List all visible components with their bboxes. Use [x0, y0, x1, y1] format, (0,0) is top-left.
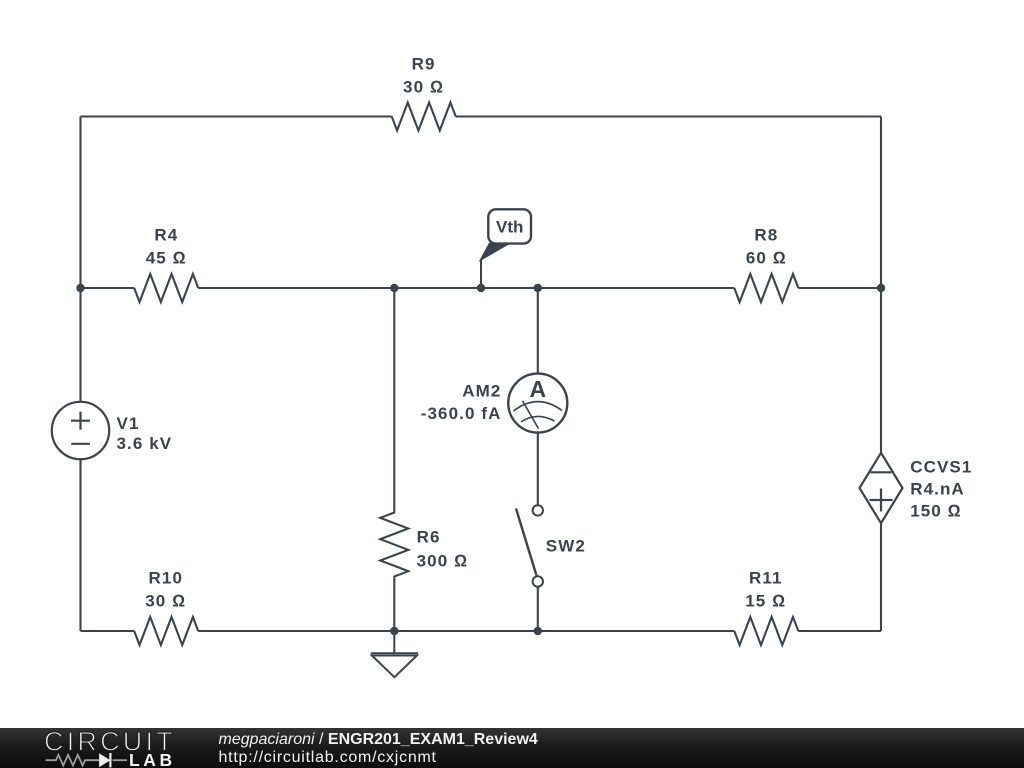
- svg-text:-360.0 fA: -360.0 fA: [421, 404, 502, 423]
- label R10 30 ohm: [145, 569, 186, 611]
- voltage source V1: [52, 402, 109, 459]
- wire middle center segment: [198, 287, 734, 289]
- label R9 30 ohm: [403, 55, 444, 97]
- logo diode: [99, 753, 127, 767]
- svg-text:LAB: LAB: [129, 750, 176, 768]
- svg-text:R10: R10: [149, 569, 184, 588]
- controlled source CCVS1: [860, 453, 903, 523]
- node junction left on middle wire: [76, 284, 84, 292]
- svg-text:30 Ω: 30 Ω: [145, 592, 186, 611]
- label AM2 -360.0 fA: [421, 382, 502, 424]
- wire middle node A to R4: [81, 287, 135, 289]
- node junction ground on bottom wire: [390, 627, 398, 635]
- svg-text:3.6 kV: 3.6 kV: [117, 434, 173, 453]
- svg-text:AM2: AM2: [462, 382, 501, 401]
- svg-text:Vth: Vth: [496, 218, 523, 237]
- wire left vertical upper: [79, 117, 81, 403]
- svg-text:30 Ω: 30 Ω: [403, 78, 444, 97]
- wire right vertical upper: [880, 117, 882, 453]
- wire bottom-right segment: [798, 630, 881, 632]
- label CCVS1 R4.nA 150 ohm: [910, 458, 972, 521]
- wire bottom center segment: [198, 630, 734, 632]
- label R4 45 ohm: [146, 226, 187, 268]
- svg-text:A: A: [529, 376, 546, 402]
- footer bar: [0, 728, 1024, 768]
- svg-text:megpaciaroni / ENGR201_EXAM1_R: megpaciaroni / ENGR201_EXAM1_Review4: [219, 731, 538, 748]
- resistor R8: [734, 274, 798, 302]
- wire Vth stub: [480, 260, 482, 289]
- resistor R9: [392, 103, 456, 131]
- wire top-left horizontal segment: [81, 115, 392, 117]
- wire ammeter bottom lead: [537, 433, 539, 506]
- svg-text:R11: R11: [749, 569, 783, 588]
- wire middle right segment: [798, 287, 881, 289]
- svg-text:150 Ω: 150 Ω: [910, 502, 962, 521]
- node junction ammeter branch on middle wire: [534, 284, 542, 292]
- resistor R10: [134, 617, 198, 645]
- svg-text:300 Ω: 300 Ω: [417, 552, 469, 571]
- node name flag Vth: [481, 209, 532, 260]
- resistor R11: [734, 617, 798, 645]
- svg-text:SW2: SW2: [546, 537, 586, 556]
- label V1 3.6 kV: [117, 414, 173, 453]
- label R11 15 ohm: [745, 569, 786, 611]
- wire right vertical lower: [880, 523, 882, 631]
- node junction switch branch on bottom wire: [534, 627, 542, 635]
- node junction right on middle wire: [877, 284, 885, 292]
- wire bottom-left segment: [81, 630, 135, 632]
- wire top-right horizontal segment: [456, 115, 881, 117]
- wire left vertical lower: [79, 459, 81, 631]
- ground: [371, 631, 418, 677]
- switch SW2: [516, 505, 543, 587]
- svg-text:R9: R9: [412, 55, 436, 74]
- svg-text:http://circuitlab.com/cxjcnmt: http://circuitlab.com/cxjcnmt: [219, 749, 437, 766]
- svg-text:V1: V1: [117, 414, 140, 433]
- node junction Vth stub on middle wire: [477, 284, 485, 292]
- resistor R4: [134, 274, 198, 302]
- svg-text:CCVS1: CCVS1: [910, 458, 972, 477]
- wire ammeter top lead: [537, 288, 539, 374]
- svg-text:R4.nA: R4.nA: [910, 480, 965, 499]
- label R8 60 ohm: [746, 226, 787, 268]
- svg-text:60 Ω: 60 Ω: [746, 249, 787, 268]
- svg-text:45 Ω: 45 Ω: [146, 249, 187, 268]
- logo resistor squiggle: [46, 755, 99, 766]
- node junction R6 branch on middle wire: [390, 284, 398, 292]
- resistor R6: [380, 288, 408, 631]
- label R6 300 ohm: [417, 528, 469, 571]
- ammeter AM2: [508, 374, 567, 433]
- svg-text:R6: R6: [417, 528, 441, 547]
- svg-text:15 Ω: 15 Ω: [745, 592, 786, 611]
- svg-text:R8: R8: [754, 226, 778, 245]
- wire switch bottom lead: [537, 587, 539, 631]
- svg-text:R4: R4: [154, 226, 178, 245]
